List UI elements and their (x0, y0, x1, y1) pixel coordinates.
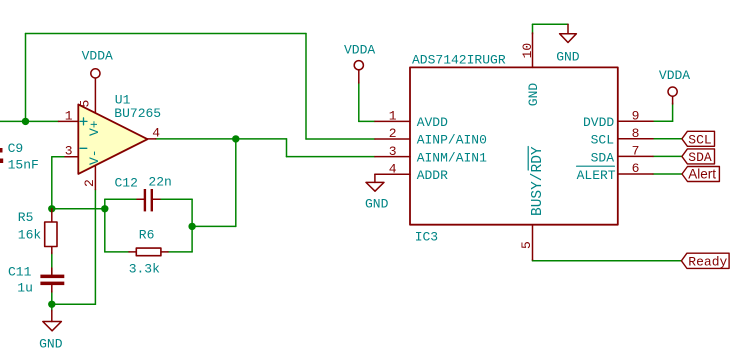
svg-text:1: 1 (65, 108, 73, 123)
wire opamp -in stub (52, 156, 65, 158)
IC3 pin 5 lead (532, 225, 534, 260)
svg-text:2: 2 (82, 179, 97, 187)
svg-text:ADDR: ADDR (417, 168, 448, 183)
resistor R6 right lead (161, 251, 168, 253)
svg-text:4: 4 (389, 161, 397, 176)
wire feedback horizontal (192, 225, 236, 227)
wire into IC pin9 DVDD (653, 120, 673, 122)
capacitor C12 left lead (137, 198, 144, 200)
svg-text:16k: 16k (18, 228, 42, 243)
wire feedback vertical to output (235, 139, 237, 227)
opamp U1 pin 1 lead (59, 120, 79, 122)
svg-text:C9: C9 (8, 141, 24, 156)
svg-text:GND: GND (365, 197, 389, 212)
svg-text:ALERT: ALERT (577, 168, 616, 183)
IC3 pin 4 lead (375, 173, 410, 175)
capacitor C12 plates (144, 189, 146, 211)
resistor R6 left lead (129, 251, 136, 253)
IC3 ADS7142IRUGR body (410, 67, 618, 224)
wire R5 to C11 (51, 253, 53, 275)
svg-text:4: 4 (152, 126, 160, 141)
wire R6 left lead (105, 251, 129, 253)
resistor R6 body (136, 248, 161, 256)
wire into IC pin3 AINM (287, 156, 375, 158)
opamp input minus mark (80, 147, 87, 149)
svg-text:AINP/AIN0: AINP/AIN0 (417, 133, 487, 148)
svg-text:1: 1 (389, 109, 397, 124)
wire pin10 to GND symbol (533, 23, 569, 25)
global label Alert: box (682, 167, 719, 182)
junction node -in/R5 (48, 205, 55, 212)
wire Ready horizontal (533, 260, 682, 262)
wire drop to AINP row (305, 34, 307, 140)
wire SCL (653, 138, 682, 140)
svg-text:9: 9 (632, 108, 640, 123)
wire VDDA right drop (672, 103, 674, 121)
resistor R5 bottom lead (51, 247, 53, 254)
svg-text:3: 3 (65, 144, 73, 159)
wire -in vertical down (51, 157, 53, 209)
IC3 pin 6 lead (618, 173, 653, 175)
svg-text:V+: V+ (87, 120, 102, 136)
wire left side of RC loop (104, 199, 106, 252)
wire node row R5 top (52, 208, 105, 210)
capacitor C11 plates (40, 275, 64, 279)
wire R6 right lead (168, 251, 192, 253)
power VDDA at IC pin9: circle (668, 87, 677, 96)
IC3 pin 8 lead (618, 138, 653, 140)
op-amp U1 body (78, 104, 147, 173)
svg-text:C12: C12 (115, 175, 138, 190)
wire pin5 corner (532, 260, 534, 261)
capacitor C11 bottom lead (51, 285, 53, 292)
junction node opamp +in (22, 118, 29, 125)
svg-text:VDDA: VDDA (82, 49, 113, 64)
IC3 pin 3 lead (375, 156, 410, 158)
opamp U1 pin 5 lead (94, 78, 96, 115)
IC3 pin 10 lead (532, 33, 534, 68)
svg-text:GND: GND (39, 336, 63, 351)
wire into IC pin1 AVDD (359, 120, 375, 122)
capacitor C9 plates (edge of canvas) (0, 148, 3, 153)
svg-text:BU7265: BU7265 (114, 106, 161, 121)
power VDDA at IC pin9: stub (672, 96, 674, 104)
svg-text:DVDD: DVDD (583, 115, 614, 130)
svg-text:R6: R6 (139, 227, 155, 242)
wire SDA (653, 155, 682, 157)
IC3 pin 2 lead (375, 138, 410, 140)
wire opamp output row (156, 138, 287, 140)
svg-text:15nF: 15nF (8, 158, 39, 173)
wire C12 right lead (160, 198, 193, 200)
svg-text:6: 6 (632, 161, 640, 176)
ground GND at pin10: triangle (560, 34, 577, 43)
svg-text:5: 5 (519, 241, 534, 249)
ground GND at ADDR pin: stub (374, 174, 376, 182)
ground GND at pin10: stub (567, 24, 569, 33)
wire vertical up from +in junction (25, 34, 27, 122)
opamp U1 pin 3 lead (65, 156, 78, 158)
svg-text:10: 10 (520, 43, 535, 59)
power VDDA at IC pin1: circle (354, 61, 363, 70)
global label SDA: box (682, 149, 715, 164)
svg-text:1u: 1u (17, 281, 33, 296)
svg-text:8: 8 (632, 126, 640, 141)
svg-text:VDDA: VDDA (659, 68, 690, 83)
svg-text:22n: 22n (148, 175, 171, 190)
svg-text:SDA: SDA (688, 150, 712, 165)
svg-text:5: 5 (78, 100, 93, 108)
svg-text:BUSY/RDY: BUSY/RDY (530, 146, 546, 216)
wire VDDA left drop to IC pin1 (358, 82, 360, 121)
IC3 pin 7 lead (618, 155, 653, 157)
junction node output/feedback (232, 135, 239, 142)
svg-text:GND: GND (556, 50, 580, 65)
wire bottom horizontal to GND node (52, 303, 96, 305)
wire top horizontal run (26, 33, 307, 35)
IC3 pin 1 lead (375, 120, 410, 122)
ground GND below C11: stub (51, 311, 53, 322)
wire right side of RC loop (191, 199, 193, 252)
wire C11 bottom to node (51, 291, 53, 304)
IC3 pin 9 lead (618, 120, 653, 122)
svg-text:3: 3 (389, 144, 397, 159)
svg-text:SCL: SCL (591, 133, 614, 148)
svg-text:2: 2 (389, 126, 397, 141)
wire opamp +in from left edge (0, 120, 59, 122)
svg-text:VDDA: VDDA (344, 42, 375, 57)
svg-text:AVDD: AVDD (417, 115, 448, 130)
svg-text:ADS7142IRUGR: ADS7142IRUGR (412, 53, 506, 68)
resistor R5 body (45, 222, 57, 247)
resistor R5 top lead (51, 209, 53, 222)
power VDDA at IC pin1: stub (358, 70, 360, 83)
wire C12 left lead (105, 198, 137, 200)
junction node RC loop left (101, 205, 108, 212)
svg-text:7: 7 (632, 144, 640, 159)
svg-text:SDA: SDA (591, 150, 615, 165)
wire output jog down (286, 139, 288, 157)
junction node GND bottom (48, 301, 55, 308)
global label Ready: box (681, 253, 729, 268)
global label SCL: box (682, 131, 715, 146)
capacitor C11 top lead (51, 268, 53, 275)
svg-text:GND: GND (526, 83, 541, 107)
capacitor C12 right lead (153, 198, 160, 200)
wire ALERT (653, 173, 682, 175)
svg-text:AINM/AIN1: AINM/AIN1 (417, 150, 487, 165)
svg-text:SCL: SCL (688, 132, 711, 147)
ground GND at ADDR pin: triangle (366, 182, 384, 191)
ground GND below C11: triangle (43, 322, 62, 331)
opamp U1 pin 4 lead (148, 138, 156, 140)
junction node RC loop right (188, 223, 195, 230)
svg-text:V-: V- (87, 149, 102, 165)
wire into IC pin2 AINP (306, 138, 375, 140)
opamp U1 pin 2 lead (94, 163, 96, 190)
svg-text:Alert: Alert (688, 167, 716, 182)
wire opamp pin2 long vertical (94, 190, 96, 305)
svg-text:C11: C11 (8, 265, 32, 280)
opamp input plus mark (80, 118, 87, 125)
svg-text:IC3: IC3 (415, 230, 438, 245)
svg-text:Ready: Ready (688, 255, 727, 270)
power VDDA at opamp: circle (91, 69, 100, 78)
svg-text:R5: R5 (18, 210, 34, 225)
wire node to GND symbol (51, 304, 53, 311)
wire IC pin10 up (532, 24, 534, 34)
svg-text:3.3k: 3.3k (129, 262, 160, 277)
